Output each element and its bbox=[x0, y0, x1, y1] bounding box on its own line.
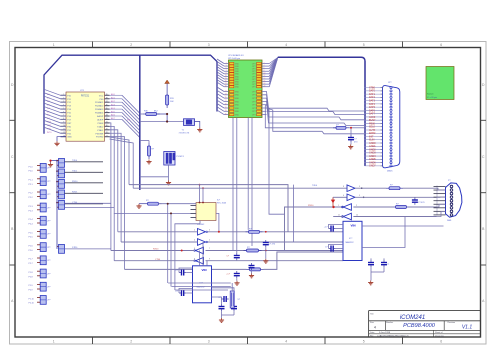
svg-text:Date:: Date: bbox=[370, 331, 375, 334]
svg-text:1: 1 bbox=[53, 43, 55, 47]
wire vcc to buffer bbox=[333, 196, 347, 198]
svg-text:9: 9 bbox=[359, 186, 360, 188]
wire JP1 to D2 line bbox=[265, 105, 336, 128]
svg-text:P1.0: P1.0 bbox=[29, 166, 34, 168]
svg-text:3: 3 bbox=[208, 339, 210, 343]
wire TXD1 line bbox=[121, 241, 343, 243]
svg-text:31: 31 bbox=[225, 107, 227, 109]
svg-text:P2.8: P2.8 bbox=[29, 276, 34, 278]
wire RTC right drop bbox=[216, 213, 219, 231]
svg-text:2: 2 bbox=[264, 62, 265, 64]
wire R33 left bbox=[139, 203, 145, 205]
wire R38 to DB9 bbox=[410, 206, 437, 208]
svg-text:GND: GND bbox=[235, 115, 240, 117]
svg-text:U?1: U?1 bbox=[80, 90, 85, 92]
svg-text:RXD0: RXD0 bbox=[72, 181, 78, 183]
wire jumper bus to ground bbox=[51, 161, 58, 163]
IC MAX232 left bbox=[193, 266, 212, 303]
svg-text:2: 2 bbox=[194, 230, 195, 232]
wire aux line 269 bbox=[125, 252, 344, 269]
wire DB9 jog 1 bbox=[437, 188, 446, 190]
svg-text:39: 39 bbox=[106, 94, 108, 96]
svg-text:P1.8: P1.8 bbox=[29, 272, 34, 274]
wire CTS0 line bbox=[114, 260, 343, 262]
resistor R36 bbox=[247, 266, 264, 271]
svg-text:IC?: IC? bbox=[217, 200, 221, 202]
svg-text:27: 27 bbox=[106, 135, 108, 137]
svg-text:470: 470 bbox=[354, 141, 358, 143]
svg-text:P2.5: P2.5 bbox=[29, 237, 34, 239]
svg-text:GND: GND bbox=[235, 105, 240, 107]
svg-text:DB25: DB25 bbox=[387, 170, 393, 172]
wire fan DB9 pins bbox=[434, 186, 446, 215]
svg-text:16: 16 bbox=[264, 80, 266, 82]
ground below R32 bbox=[146, 160, 151, 164]
svg-text:19: 19 bbox=[225, 86, 227, 88]
svg-text:JP?: JP? bbox=[47, 168, 50, 170]
svg-text:P87C51: P87C51 bbox=[81, 95, 90, 97]
wire JP1 lower to DB25 bbox=[262, 92, 365, 126]
svg-text:PCB98.4000: PCB98.4000 bbox=[403, 323, 436, 329]
svg-text:DB9: DB9 bbox=[447, 220, 452, 222]
svg-text:36: 36 bbox=[106, 104, 108, 106]
svg-text:RST: RST bbox=[67, 123, 72, 125]
capacitor C13 bbox=[249, 263, 255, 270]
svg-text:33: 33 bbox=[106, 115, 108, 117]
svg-text:12: 12 bbox=[264, 75, 266, 77]
svg-text:8K2: 8K2 bbox=[154, 111, 158, 113]
wire staircase U1 right to buffers bbox=[110, 123, 134, 270]
resistor R37 bbox=[386, 185, 403, 190]
svg-text:P2.9: P2.9 bbox=[29, 290, 34, 292]
svg-text:ALE/P: ALE/P bbox=[97, 118, 104, 121]
junction at C15 bbox=[350, 127, 352, 129]
svg-text:38: 38 bbox=[106, 97, 108, 99]
svg-text:P2.6: P2.6 bbox=[29, 250, 34, 252]
svg-text:P36/WR: P36/WR bbox=[96, 133, 104, 135]
wire bottom loop c bbox=[175, 289, 228, 291]
wire R33 to RTC bbox=[159, 203, 197, 205]
svg-text:C?: C? bbox=[325, 247, 328, 249]
wire XTAL1 to R30 bbox=[140, 113, 143, 115]
ground below C10 bbox=[263, 259, 268, 263]
ground below C15 bbox=[348, 145, 353, 149]
svg-text:7: 7 bbox=[209, 248, 210, 250]
IC RTC DS1302 bbox=[191, 200, 227, 226]
wire RTC drop 3 bbox=[175, 221, 200, 291]
svg-text:P2.3: P2.3 bbox=[29, 210, 34, 212]
buffer U3A bbox=[347, 185, 363, 192]
svg-text:6: 6 bbox=[440, 339, 442, 343]
svg-text:JP1 2x20 pin: JP1 2x20 pin bbox=[228, 58, 241, 60]
svg-text:JP?: JP? bbox=[47, 300, 50, 302]
jack PL1 bbox=[164, 152, 185, 166]
svg-text:JP?: JP? bbox=[47, 181, 50, 183]
svg-text:3: 3 bbox=[209, 230, 210, 232]
svg-text:9: 9 bbox=[226, 73, 227, 75]
connector DTR jumper bbox=[57, 245, 78, 254]
svg-text:PSEN: PSEN bbox=[98, 123, 104, 125]
wire RTC feed d bbox=[114, 212, 191, 214]
svg-text:Number: Number bbox=[386, 322, 393, 324]
wire C5 loop bbox=[329, 225, 344, 229]
svg-text:B: B bbox=[482, 227, 485, 231]
connector DB25 bbox=[381, 82, 400, 172]
wire jack top bbox=[140, 176, 169, 178]
pin numbers U2 bbox=[194, 230, 210, 261]
svg-text:2: 2 bbox=[130, 43, 132, 47]
connector DB9 bbox=[446, 180, 462, 222]
capacitor C7 bottom bbox=[368, 258, 374, 267]
wire vert 293 bbox=[292, 185, 294, 242]
wire R37 to DB9 bbox=[403, 187, 437, 189]
svg-text:RXD0: RXD0 bbox=[308, 205, 314, 207]
svg-text:23: 23 bbox=[225, 94, 227, 96]
wire D1 to DB25 bbox=[349, 127, 365, 129]
svg-text:GND: GND bbox=[235, 91, 240, 93]
wire jack to ground bbox=[168, 165, 170, 181]
svg-text:GND: GND bbox=[235, 95, 240, 97]
svg-text:3: 3 bbox=[208, 43, 210, 47]
svg-text:Size: Size bbox=[370, 322, 375, 324]
wire DB9 jog 2 bbox=[437, 196, 446, 198]
svg-text:P1.1: P1.1 bbox=[29, 180, 34, 182]
svg-text:C?: C? bbox=[387, 264, 390, 266]
svg-text:1: 1 bbox=[53, 339, 55, 343]
svg-text:XTAL2: XTAL2 bbox=[97, 125, 104, 128]
svg-text:10: 10 bbox=[264, 73, 266, 75]
capacitor C11 bbox=[226, 253, 239, 260]
ground at jumper column bbox=[48, 163, 53, 167]
svg-text:Socket: Socket bbox=[427, 93, 434, 96]
svg-text:JP?: JP? bbox=[47, 194, 50, 196]
svg-text:RXD0: RXD0 bbox=[153, 249, 159, 251]
svg-text:20: 20 bbox=[264, 86, 266, 88]
bus U1 right vertical bbox=[139, 55, 141, 190]
svg-text:9: 9 bbox=[209, 258, 210, 260]
resistor R32 vertical bbox=[147, 143, 155, 159]
svg-text:Sheet of: Sheet of bbox=[435, 331, 443, 334]
svg-text:29: 29 bbox=[225, 104, 227, 106]
svg-text:JP?: JP? bbox=[47, 260, 50, 262]
svg-text:P37/RD: P37/RD bbox=[96, 137, 104, 139]
wire bus MCU-left to top bbox=[44, 55, 217, 134]
svg-text:VCC: VCC bbox=[99, 95, 104, 97]
svg-text:6: 6 bbox=[440, 43, 442, 47]
svg-text:XTAL1: XTAL1 bbox=[97, 129, 104, 132]
wire R30 to T1 node bbox=[157, 114, 167, 122]
wire serial jumper bus bbox=[56, 161, 58, 249]
capacitor C14 bbox=[412, 198, 425, 205]
svg-text:4: 4 bbox=[194, 240, 195, 242]
svg-text:27: 27 bbox=[225, 100, 227, 102]
wire U3D out bbox=[333, 216, 343, 218]
wire C15 top bbox=[350, 129, 352, 136]
svg-text:TXD0: TXD0 bbox=[312, 185, 318, 187]
svg-text:C?: C? bbox=[175, 270, 178, 272]
capacitor C5 left bbox=[324, 226, 336, 232]
svg-text:INT0: INT0 bbox=[47, 132, 52, 134]
label CTS0 bbox=[155, 259, 161, 261]
svg-text:JP?: JP? bbox=[47, 221, 50, 223]
svg-text:6: 6 bbox=[264, 67, 265, 69]
power VCC above R31 bbox=[165, 80, 170, 92]
wire XTAL2 to T1 bbox=[127, 120, 184, 122]
svg-text:MAX232: MAX232 bbox=[197, 286, 206, 289]
capacitor C4 bottom bbox=[212, 288, 238, 311]
resistor R38 bbox=[393, 204, 410, 209]
svg-text:4: 4 bbox=[343, 195, 344, 197]
svg-text:P2.1: P2.1 bbox=[29, 184, 34, 186]
resistor R33 at RTC bbox=[145, 200, 162, 205]
wire bottom loop a bbox=[168, 282, 231, 284]
svg-text:GND: GND bbox=[235, 101, 240, 103]
svg-text:PL MP.1: PL MP.1 bbox=[177, 156, 185, 158]
svg-text:Drawn by:: Drawn by: bbox=[435, 335, 444, 337]
junction C10 top bbox=[265, 231, 267, 252]
svg-text:8: 8 bbox=[264, 70, 265, 72]
wire U3C in bbox=[353, 206, 392, 208]
svg-text:P1.9: P1.9 bbox=[29, 285, 34, 287]
svg-text:17: 17 bbox=[225, 83, 227, 85]
sheet border inner bbox=[15, 48, 481, 338]
wire DB9 jog 3 bbox=[437, 204, 446, 207]
junction RXD bbox=[332, 206, 334, 208]
svg-text:15: 15 bbox=[225, 80, 227, 82]
wire bus JP1 to DB25 bbox=[278, 57, 365, 166]
svg-text:C: C bbox=[482, 155, 485, 159]
wire fan JP1 left bbox=[217, 59, 229, 115]
svg-text:8: 8 bbox=[343, 186, 344, 188]
svg-text:P1.7: P1.7 bbox=[29, 259, 34, 261]
component D1 line bbox=[333, 124, 349, 129]
wire TXD0 line bbox=[118, 231, 343, 233]
wire U3D in bbox=[353, 216, 436, 218]
capacitor C15 bbox=[348, 135, 358, 143]
wire JP1 cascade 131 bbox=[267, 108, 366, 134]
svg-text:A: A bbox=[11, 299, 14, 303]
capacitor C2 left bbox=[175, 290, 186, 296]
svg-text:V1.1: V1.1 bbox=[462, 325, 473, 331]
svg-text:R?: R? bbox=[152, 149, 155, 151]
svg-text:28: 28 bbox=[106, 132, 108, 134]
svg-text:29: 29 bbox=[106, 129, 108, 131]
svg-text:P1.5: P1.5 bbox=[29, 232, 34, 234]
svg-text:+C?: +C? bbox=[226, 274, 231, 276]
svg-text:Revision: Revision bbox=[448, 322, 456, 324]
svg-text:5: 5 bbox=[363, 43, 365, 47]
svg-text:5: 5 bbox=[226, 67, 227, 69]
svg-text:RXD1: RXD1 bbox=[72, 191, 78, 193]
ground MAX right bbox=[368, 281, 373, 285]
svg-text:VIN: VIN bbox=[351, 223, 356, 227]
svg-text:34: 34 bbox=[106, 111, 108, 113]
svg-text:T1: T1 bbox=[182, 129, 185, 131]
svg-text:JP?: JP? bbox=[47, 287, 50, 289]
svg-text:P2.2: P2.2 bbox=[29, 197, 34, 199]
wire C15 ground bbox=[350, 142, 352, 144]
svg-text:2: 2 bbox=[130, 339, 132, 343]
svg-text:D: D bbox=[11, 83, 14, 87]
svg-text:+C?: +C? bbox=[324, 227, 329, 229]
connector column P1 headers bbox=[29, 164, 51, 305]
svg-text:C?: C? bbox=[175, 291, 178, 293]
wire C1 loop bbox=[179, 268, 193, 273]
resistor R30 bbox=[143, 111, 160, 116]
svg-text:GND: GND bbox=[235, 87, 240, 89]
ground at T1 bbox=[197, 128, 202, 132]
svg-text:7: 7 bbox=[226, 70, 227, 72]
svg-text:2: 2 bbox=[356, 205, 357, 207]
resistor R34 bbox=[246, 228, 263, 233]
svg-text:P?: P? bbox=[448, 180, 451, 182]
svg-text:B: B bbox=[11, 227, 14, 231]
wire C7 ground bbox=[371, 267, 384, 280]
svg-text:IC x 20 pin: IC x 20 pin bbox=[427, 97, 438, 99]
svg-text:iCOM241: iCOM241 bbox=[400, 315, 425, 321]
junction RXD0 bbox=[181, 250, 183, 252]
capacitor C6 left bbox=[325, 246, 336, 252]
svg-text:GND: GND bbox=[235, 98, 240, 100]
wire long A bbox=[129, 185, 288, 232]
svg-text:25: 25 bbox=[225, 97, 227, 99]
svg-text:P1.6: P1.6 bbox=[29, 246, 34, 248]
title block text bbox=[370, 313, 472, 338]
svg-text:VIN: VIN bbox=[202, 268, 207, 272]
svg-text:RTC 4543: RTC 4543 bbox=[217, 202, 227, 204]
IC MAX232 right bbox=[343, 221, 362, 260]
svg-text:3: 3 bbox=[226, 65, 227, 67]
svg-text:P02/AD2: P02/AD2 bbox=[95, 105, 104, 108]
inverter U3D bbox=[342, 213, 352, 220]
wire buffers to MAX left bbox=[200, 242, 208, 266]
svg-text:11: 11 bbox=[225, 75, 227, 77]
junction at jumper ground bbox=[49, 160, 51, 162]
wire JP1 bottom drops bbox=[233, 118, 252, 254]
wire C14 to DB9 bbox=[414, 196, 416, 198]
wire C10 to ground bbox=[265, 247, 267, 259]
capacitor C3 bottom bbox=[212, 297, 225, 311]
wire fan JP1 right-top bbox=[262, 58, 278, 88]
svg-text:4: 4 bbox=[264, 65, 265, 67]
svg-text:JP?: JP? bbox=[47, 273, 50, 275]
inverter U2C bbox=[194, 247, 204, 254]
svg-text:Title: Title bbox=[370, 313, 375, 316]
wire CTS0 jumper stubs bbox=[65, 203, 115, 207]
wire U1 GND pin bbox=[57, 137, 66, 142]
label TXD0 bbox=[312, 185, 318, 187]
wire C12 to ground bbox=[236, 278, 238, 281]
svg-text:37: 37 bbox=[106, 101, 108, 103]
svg-text:35: 35 bbox=[106, 108, 108, 110]
crystal X2 bottom bbox=[230, 291, 241, 308]
wire RTC top feed 1 bbox=[199, 184, 201, 203]
svg-text:33: 33 bbox=[225, 110, 227, 112]
svg-text:JP?: JP? bbox=[47, 234, 50, 236]
svg-text:14: 14 bbox=[264, 78, 266, 80]
wire MAXR to DB9 a bbox=[362, 225, 444, 227]
svg-text:30: 30 bbox=[106, 125, 108, 127]
svg-text:13: 13 bbox=[225, 78, 227, 80]
svg-text:TXD1: TXD1 bbox=[72, 170, 78, 172]
svg-text:JP?: JP? bbox=[47, 247, 50, 249]
svg-text:5: 5 bbox=[209, 240, 210, 242]
svg-text:5: 5 bbox=[359, 195, 360, 197]
ground below U1 bbox=[54, 141, 59, 145]
svg-text:P1.4: P1.4 bbox=[29, 219, 34, 221]
resistor R35 bbox=[244, 247, 262, 252]
svg-text:5-Jan-1998: 5-Jan-1998 bbox=[379, 332, 391, 334]
capacitor C8 bottom bbox=[381, 258, 390, 267]
svg-text:P1.10: P1.10 bbox=[29, 298, 35, 300]
wire MAXR to DB9 b bbox=[362, 217, 405, 248]
wire RTC top feed 2 bbox=[202, 187, 204, 202]
wire X2 top bbox=[231, 283, 233, 291]
wire RTC drop 2 bbox=[170, 212, 172, 286]
resistor R31 vertical bbox=[166, 92, 175, 108]
svg-text:C?: C? bbox=[354, 139, 357, 141]
svg-text:CPU BOARD I/O: CPU BOARD I/O bbox=[228, 54, 244, 57]
svg-text:TXD0: TXD0 bbox=[72, 160, 78, 162]
socket block bbox=[426, 67, 454, 100]
ground below C12 bbox=[234, 281, 239, 285]
capacitor C12 bbox=[226, 271, 240, 278]
buffer U2A bbox=[198, 229, 208, 236]
svg-text:JP?: JP? bbox=[388, 82, 392, 84]
svg-text:10K: 10K bbox=[170, 101, 174, 103]
junction RTC top bbox=[199, 202, 204, 204]
label RXD0 bbox=[308, 205, 314, 207]
wire long TXD bbox=[133, 187, 347, 189]
svg-text:35: 35 bbox=[225, 113, 227, 115]
ground below jack bbox=[166, 181, 171, 185]
svg-text:7.3728 CTX: 7.3728 CTX bbox=[179, 132, 190, 134]
svg-text:32: 32 bbox=[106, 118, 108, 120]
wire R32 top bbox=[140, 141, 149, 144]
svg-text:P2.10: P2.10 bbox=[29, 303, 35, 305]
svg-text:C?: C? bbox=[226, 256, 229, 258]
ground MAX left bbox=[219, 318, 224, 322]
svg-text:X?: X? bbox=[238, 299, 241, 301]
buffer U2B bbox=[198, 239, 208, 246]
svg-text:CTS0: CTS0 bbox=[155, 259, 161, 261]
svg-text:P2.4: P2.4 bbox=[29, 224, 34, 226]
svg-text:GND: GND bbox=[67, 137, 72, 139]
svg-text:C: C bbox=[11, 155, 14, 159]
capacitor C1 left bbox=[175, 270, 186, 276]
svg-text:C? 470: C? 470 bbox=[269, 244, 276, 246]
svg-text:12: 12 bbox=[356, 214, 358, 216]
wire C3 ground bbox=[222, 311, 235, 318]
svg-text:EA/VP: EA/VP bbox=[97, 115, 104, 118]
svg-text:JP?: JP? bbox=[47, 207, 50, 209]
wire fan U1 left pins bbox=[44, 89, 66, 134]
pin numbers U3 bbox=[338, 186, 360, 216]
svg-text:MAX232: MAX232 bbox=[346, 241, 355, 244]
svg-text:4: 4 bbox=[374, 326, 376, 330]
svg-text:P2.0: P2.0 bbox=[29, 171, 34, 173]
svg-text:1: 1 bbox=[338, 205, 339, 207]
junction TXD0 bbox=[218, 231, 220, 233]
svg-text:P1.2: P1.2 bbox=[29, 193, 34, 195]
svg-text:1: 1 bbox=[226, 62, 227, 64]
connector column serial jumpers bbox=[56, 159, 103, 210]
svg-text:5: 5 bbox=[363, 339, 365, 343]
crystal T1 7.3728 bbox=[179, 119, 195, 135]
capacitor C10 bbox=[263, 240, 276, 247]
wire fan DB25 pins bbox=[365, 86, 382, 167]
svg-text:P03/AD3: P03/AD3 bbox=[95, 108, 104, 111]
